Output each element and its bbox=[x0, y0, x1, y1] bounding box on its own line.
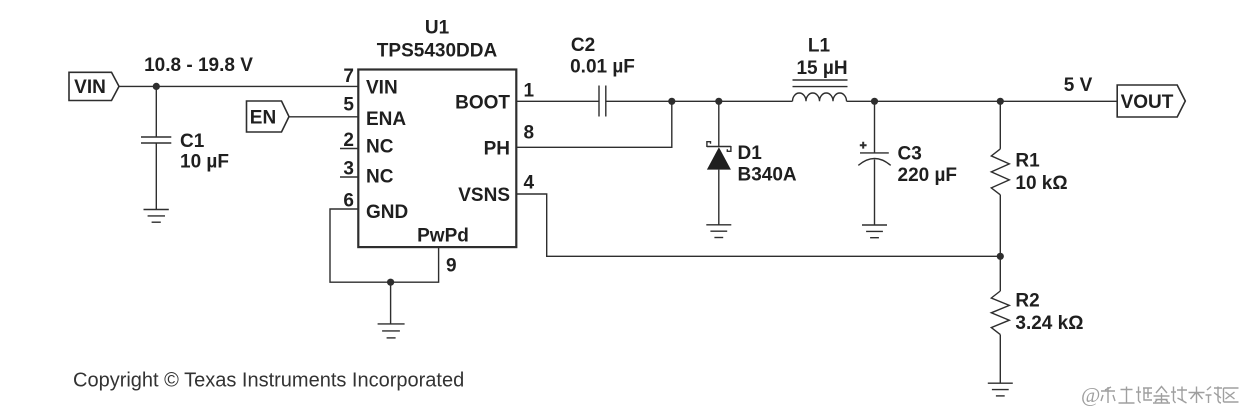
capacitor C1 bbox=[141, 86, 229, 209]
svg-text:U1: U1 bbox=[425, 18, 450, 39]
node R1 junction bbox=[997, 98, 1004, 105]
node junction at C1 tap bbox=[153, 83, 160, 90]
wire L1 to output rail bbox=[847, 100, 1118, 102]
node feedback junction bbox=[997, 253, 1004, 260]
node C3 junction bbox=[871, 98, 878, 105]
svg-text:TPS5430DDA: TPS5430DDA bbox=[377, 41, 498, 62]
svg-text:3.24 kΩ: 3.24 kΩ bbox=[1015, 313, 1083, 334]
svg-text:R1: R1 bbox=[1015, 151, 1040, 172]
svg-text:C1: C1 bbox=[180, 131, 205, 152]
svg-text:NC: NC bbox=[366, 167, 394, 188]
svg-text:D1: D1 bbox=[738, 143, 763, 164]
svg-text:15 µH: 15 µH bbox=[796, 58, 847, 79]
node boot/ph junction bbox=[668, 98, 675, 105]
svg-text:VIN: VIN bbox=[74, 77, 106, 98]
svg-text:PwPd: PwPd bbox=[417, 225, 469, 246]
svg-text:10 kΩ: 10 kΩ bbox=[1015, 173, 1067, 194]
ground under C3 bbox=[862, 225, 887, 238]
op-amp U1 TPS5430DDA body bbox=[358, 18, 516, 248]
watermark bbox=[1081, 383, 1239, 407]
svg-text:EN: EN bbox=[250, 107, 276, 128]
svg-text:R2: R2 bbox=[1015, 291, 1039, 312]
resistor R2 bbox=[991, 256, 1083, 383]
svg-text:5: 5 bbox=[343, 94, 354, 115]
svg-text:C3: C3 bbox=[898, 144, 922, 165]
port EN bbox=[247, 101, 290, 132]
svg-text:@: @ bbox=[1081, 383, 1100, 407]
wire VIN to pin 7 bbox=[119, 85, 358, 87]
ground under U1 bbox=[378, 324, 405, 338]
port VOUT bbox=[1117, 85, 1185, 117]
wire BOOT to C2 bbox=[516, 100, 599, 102]
capacitor C3 (polarized) bbox=[858, 101, 957, 225]
svg-text:L1: L1 bbox=[808, 35, 831, 56]
svg-text:10.8 - 19.8 V: 10.8 - 19.8 V bbox=[144, 55, 253, 76]
svg-text:3: 3 bbox=[343, 158, 354, 179]
svg-text:9: 9 bbox=[446, 255, 457, 276]
svg-text:7: 7 bbox=[343, 66, 354, 87]
svg-text:2: 2 bbox=[343, 130, 354, 151]
svg-text:220 µF: 220 µF bbox=[898, 165, 958, 186]
svg-text:4: 4 bbox=[524, 172, 535, 193]
resistor R1 bbox=[991, 101, 1067, 256]
wire switch-node rail bbox=[672, 100, 793, 102]
svg-text:Copyright © Texas Instruments: Copyright © Texas Instruments Incorporat… bbox=[73, 370, 464, 392]
svg-text:10 µF: 10 µF bbox=[180, 152, 229, 173]
wire PH to boot node riser bbox=[516, 101, 672, 147]
wire GND pin6 to PwPd pin9 loop bbox=[330, 209, 439, 282]
node ground loop junction bbox=[387, 279, 394, 286]
svg-text:1: 1 bbox=[524, 80, 535, 101]
svg-text:C2: C2 bbox=[571, 35, 595, 56]
svg-text:BOOT: BOOT bbox=[455, 93, 510, 114]
pin 3 stub bbox=[340, 176, 358, 178]
svg-text:PH: PH bbox=[484, 138, 510, 159]
wire junction to ground bbox=[390, 282, 392, 324]
svg-text:VIN: VIN bbox=[366, 78, 398, 99]
ground under R2 bbox=[988, 383, 1013, 396]
ground under C1 bbox=[144, 210, 169, 223]
diode D1 B340A (schottky) bbox=[707, 101, 797, 225]
svg-text:0.01 µF: 0.01 µF bbox=[570, 56, 635, 77]
ground under D1 bbox=[706, 225, 731, 238]
wire VSNS feedback bbox=[516, 194, 1000, 256]
svg-text:B340A: B340A bbox=[738, 165, 797, 186]
node D1 junction bbox=[715, 98, 722, 105]
svg-text:5 V: 5 V bbox=[1064, 75, 1093, 96]
svg-text:GND: GND bbox=[366, 202, 408, 223]
pin 2 stub bbox=[340, 148, 358, 150]
svg-text:NC: NC bbox=[366, 136, 394, 157]
svg-text:ENA: ENA bbox=[366, 109, 406, 130]
inductor L1 bbox=[793, 35, 848, 101]
wire EN to pin 5 bbox=[289, 116, 358, 118]
port VIN bbox=[69, 72, 119, 100]
svg-text:6: 6 bbox=[343, 190, 354, 211]
svg-text:8: 8 bbox=[524, 122, 535, 143]
capacitor C2 bbox=[570, 35, 635, 116]
wire C2 to boot node bbox=[606, 100, 672, 102]
svg-text:VOUT: VOUT bbox=[1121, 92, 1174, 113]
svg-text:VSNS: VSNS bbox=[458, 185, 510, 206]
